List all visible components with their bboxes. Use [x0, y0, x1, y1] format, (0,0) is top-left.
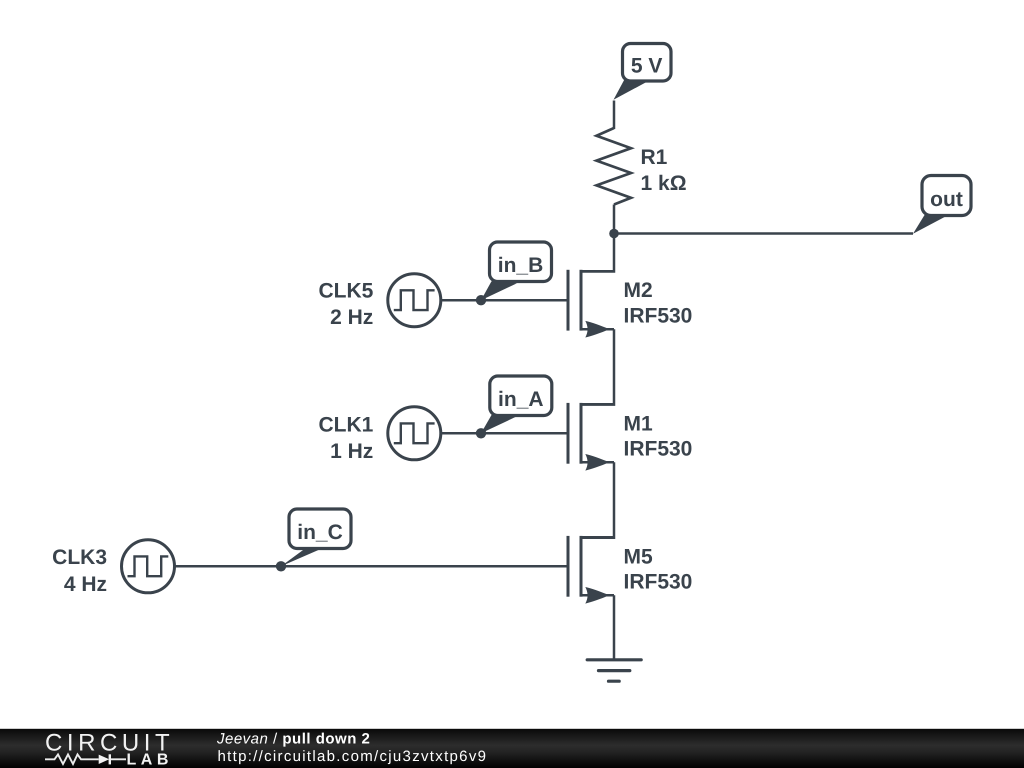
- svg-text:LAB: LAB: [127, 751, 173, 768]
- junction dot node in_B: [476, 295, 486, 305]
- svg-text:out: out: [930, 188, 963, 211]
- wire CLK1 to M1 gate: [441, 432, 567, 435]
- label M5 IRF530: [624, 545, 693, 593]
- net label 5 V: [623, 44, 672, 82]
- pointer flag of 5 V label: [614, 79, 647, 100]
- transistor M2: [568, 270, 614, 338]
- wire CLK5 to M2 gate: [441, 299, 567, 302]
- transistor M1: [568, 403, 614, 471]
- pointer flag of in_C label: [281, 548, 319, 566]
- pointer flag of in_B label: [481, 281, 517, 300]
- pointer flag of in_A label: [481, 415, 517, 434]
- label CLK3 4 Hz: [52, 546, 107, 596]
- svg-text:CLK5: CLK5: [318, 279, 373, 302]
- wire M2 source to M1 drain: [581, 329, 614, 404]
- net label out: [922, 176, 971, 216]
- svg-text:R1: R1: [641, 146, 668, 169]
- pointer flag of out label: [913, 214, 946, 234]
- wire R1 to out node and M2 drain: [581, 205, 614, 272]
- svg-text:IRF530: IRF530: [624, 305, 693, 328]
- wire 5V to R1: [613, 101, 616, 130]
- svg-text:1 Hz: 1 Hz: [330, 440, 373, 463]
- wire M1 source to M5 drain: [581, 462, 614, 537]
- svg-text:M2: M2: [624, 279, 653, 302]
- svg-text:M1: M1: [624, 412, 653, 435]
- ground: [587, 660, 641, 681]
- svg-text:http://circuitlab.com/cju3zvtx: http://circuitlab.com/cju3zvtxtp6v9: [218, 748, 488, 765]
- label R1 1 kOhm: [641, 146, 687, 195]
- label M2 IRF530: [624, 279, 693, 327]
- svg-text:in_C: in_C: [297, 521, 343, 544]
- net label in_A: [490, 376, 552, 416]
- label M1 IRF530: [624, 412, 693, 460]
- svg-text:2 Hz: 2 Hz: [330, 306, 373, 329]
- svg-text:in_A: in_A: [498, 388, 544, 411]
- wire out node to out label: [614, 232, 913, 235]
- voltage source CLK1: [388, 407, 441, 460]
- junction dot node in_A: [476, 428, 486, 438]
- svg-text:4 Hz: 4 Hz: [64, 573, 107, 596]
- junction dot node in_C: [276, 561, 286, 571]
- node out junction dot: [609, 229, 619, 239]
- voltage source CLK5: [388, 274, 441, 327]
- wire M5 source to ground: [613, 595, 616, 660]
- wire CLK3 to M5 gate: [175, 565, 567, 568]
- transistor M5: [568, 536, 614, 604]
- svg-text:IRF530: IRF530: [624, 571, 693, 594]
- CircuitLab logo resistor squiggle: [45, 754, 99, 764]
- svg-text:in_B: in_B: [498, 254, 544, 277]
- resistor R1: [597, 128, 632, 205]
- svg-text:IRF530: IRF530: [624, 438, 693, 461]
- voltage source CLK3: [122, 540, 175, 593]
- net label in_C: [289, 509, 351, 549]
- svg-text:5 V: 5 V: [631, 55, 663, 78]
- label CLK5 2 Hz: [318, 279, 373, 329]
- footer bar: [0, 729, 1024, 768]
- svg-text:M5: M5: [624, 545, 653, 568]
- label CLK1 1 Hz: [318, 413, 373, 463]
- svg-text:CLK3: CLK3: [52, 546, 107, 569]
- CircuitLab logo diode: [99, 754, 126, 764]
- svg-text:CLK1: CLK1: [318, 413, 373, 436]
- net label in_B: [490, 242, 552, 282]
- svg-text:1 kΩ: 1 kΩ: [641, 172, 687, 195]
- svg-text:Jeevan / pull down 2: Jeevan / pull down 2: [216, 730, 370, 747]
